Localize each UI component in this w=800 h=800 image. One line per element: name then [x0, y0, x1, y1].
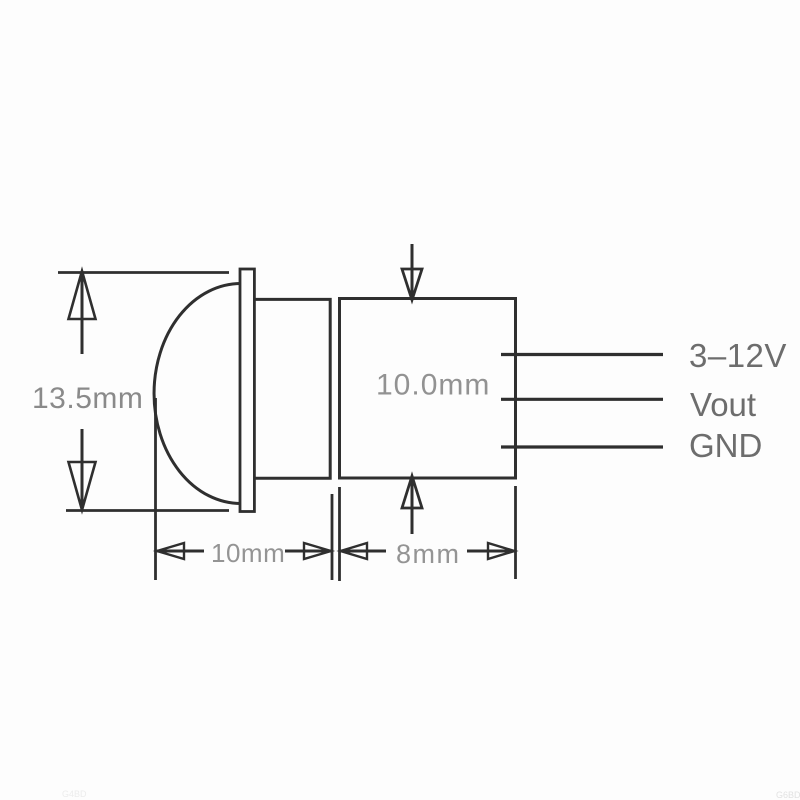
wire GND	[501, 445, 663, 448]
wire 3-12V	[501, 353, 663, 356]
dim 13.5mm top extension line	[58, 271, 229, 274]
dim 10.0mm top arrow	[402, 244, 422, 300]
extension line head right	[514, 486, 517, 579]
svg-text:GND: GND	[689, 427, 762, 464]
svg-text:13.5mm: 13.5mm	[32, 382, 143, 415]
extension line body right	[331, 494, 334, 580]
dim 10.0mm bottom arrow	[402, 476, 422, 534]
dim 10mm right arrow	[285, 543, 331, 559]
dim 8mm right arrow	[467, 543, 515, 559]
wire Vout	[501, 398, 663, 401]
svg-text:8mm: 8mm	[396, 539, 461, 569]
head (10.0mm box)	[340, 299, 516, 479]
svg-text:3–12V: 3–12V	[689, 337, 787, 374]
svg-text:10mm: 10mm	[211, 538, 285, 568]
svg-text:Vout: Vout	[690, 386, 756, 423]
dim 10mm left arrow	[157, 543, 204, 559]
dim 13.5mm top arrow	[69, 271, 96, 354]
extension line left (dome tip)	[154, 398, 157, 580]
dim 13.5mm bottom arrow	[69, 429, 96, 510]
svg-text:10.0mm: 10.0mm	[376, 369, 490, 402]
body (middle section)	[254, 299, 330, 478]
lens dome	[154, 284, 241, 504]
flange	[240, 269, 254, 512]
dim 13.5mm bottom extension line	[66, 509, 229, 512]
svg-text:G4BD: G4BD	[62, 789, 87, 799]
svg-text:G6BD6: G6BD6	[776, 790, 800, 800]
extension line head left	[338, 487, 341, 581]
dim 8mm left arrow	[341, 543, 387, 559]
